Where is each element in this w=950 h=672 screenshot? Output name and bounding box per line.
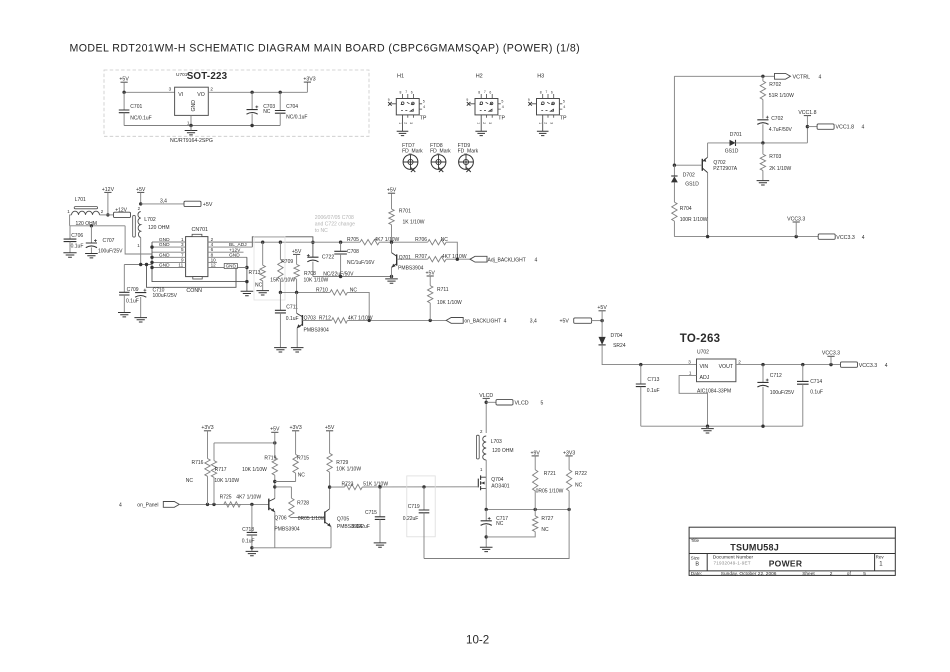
resistor R716 — [207, 431, 209, 459]
svg-text:to NC: to NC — [315, 228, 328, 234]
svg-text:51R 1/10W: 51R 1/10W — [769, 93, 794, 99]
wire SOT-223 bottom rail — [124, 125, 280, 127]
inductor L703 — [477, 435, 480, 459]
resistor R723 — [345, 484, 363, 489]
svg-text:MODEL RDT201WM-H SCHEMATIC DIA: MODEL RDT201WM-H SCHEMATIC DIAGRAM MAIN … — [70, 43, 581, 55]
svg-text:R705: R705 — [347, 237, 359, 243]
svg-text:R725: R725 — [220, 494, 232, 500]
wire on_BACKLIGHT net — [347, 319, 446, 321]
resistor R728 — [289, 498, 294, 518]
connector H2 body — [475, 99, 498, 115]
svg-text:3: 3 — [688, 360, 691, 365]
wire C722/C708 ground rail — [313, 276, 392, 278]
node junction C712 top — [761, 363, 764, 366]
wire Q704 source rail — [486, 508, 569, 510]
R713 highlight box — [254, 236, 285, 300]
svg-text:TP: TP — [498, 115, 505, 121]
wire R717 top to R719 top — [214, 442, 275, 444]
svg-text:VLCD: VLCD — [479, 393, 493, 399]
transistor Q703 PMBS3904 (NPN) — [301, 315, 303, 326]
capacitor C706 — [69, 226, 71, 239]
wire +5V to U701 pin 3 — [124, 91, 175, 93]
power flag +5V (R711) — [427, 275, 434, 277]
wire L701 pin1 down — [70, 215, 72, 226]
node junction R706/R707 — [456, 258, 459, 261]
capacitor C715 — [379, 487, 381, 517]
svg-text:10K 1/10W: 10K 1/10W — [304, 277, 329, 283]
svg-text:D701: D701 — [730, 132, 742, 138]
H3 pin 9 no-connect X — [528, 102, 532, 106]
power flag +3V3 (R716) — [204, 430, 211, 432]
connector H3 body — [537, 99, 560, 115]
H2 bottom pin stubs — [487, 115, 493, 118]
C719 highlight box — [407, 476, 435, 537]
svg-text:0.1uF: 0.1uF — [647, 388, 660, 394]
CN701 pin 10 stub — [208, 261, 217, 263]
wire L701 to +12V port — [100, 214, 114, 216]
resistor R703 — [762, 143, 764, 154]
wire to R723 — [330, 486, 345, 488]
port VCC3.3 (U702) — [841, 362, 858, 367]
svg-text:CONN: CONN — [186, 288, 202, 294]
svg-text:120 OHM: 120 OHM — [148, 225, 169, 231]
svg-text:VCC3.3: VCC3.3 — [787, 216, 805, 222]
H3 ground wire — [542, 115, 544, 131]
wire pin12 loop around — [147, 265, 237, 288]
svg-text:VCC3.3: VCC3.3 — [859, 363, 878, 369]
node junction VLCD port tie — [485, 401, 488, 404]
ground (H3) — [537, 131, 549, 135]
node junction C704 top — [279, 91, 282, 94]
svg-text:R716: R716 — [192, 460, 204, 466]
fiducial FTD9 mark — [459, 155, 474, 172]
svg-text:8: 8 — [478, 90, 480, 94]
wire Q701 base to R707 — [397, 258, 428, 260]
power flag +9V — [532, 455, 539, 457]
svg-text:VO: VO — [197, 92, 205, 98]
svg-text:H2: H2 — [476, 73, 483, 79]
svg-text:R722: R722 — [575, 471, 587, 477]
diode D702 (pointing up) — [673, 165, 675, 176]
svg-text:NC: NC — [186, 478, 194, 484]
wire VCTRL net top — [674, 75, 774, 77]
svg-text:Date:: Date: — [691, 571, 702, 577]
svg-text:H3: H3 — [537, 73, 544, 79]
svg-text:5: 5 — [541, 401, 544, 407]
svg-text:R704: R704 — [680, 206, 692, 212]
svg-text:Sunday, October 22, 2006: Sunday, October 22, 2006 — [721, 571, 777, 577]
wire VCC3.3 flag tie — [830, 356, 832, 364]
svg-text:0R05 1/10W: 0R05 1/10W — [298, 516, 326, 522]
node junction R728 tie — [273, 485, 276, 488]
CN701 pin 3 wire — [152, 246, 186, 248]
SOT-223 dashed region box — [104, 70, 369, 136]
node junction GND bus — [150, 256, 153, 259]
svg-text:Q706: Q706 — [274, 516, 286, 522]
svg-text:1K 1/10W: 1K 1/10W — [403, 220, 425, 226]
svg-text:+12V: +12V — [102, 187, 115, 193]
power flag +3V3 (R722) — [566, 455, 573, 457]
svg-text:3,4: 3,4 — [530, 318, 537, 324]
svg-text:TO-263: TO-263 — [680, 333, 721, 345]
wire Q702 emitter to D701 — [708, 142, 730, 144]
wire VCC3.3 flag to rail — [795, 222, 797, 237]
capacitor C702 — [757, 120, 768, 125]
svg-text:2: 2 — [404, 122, 408, 124]
svg-text:R711: R711 — [437, 287, 449, 293]
svg-text:NC: NC — [496, 521, 504, 527]
svg-text:0.1uF: 0.1uF — [126, 299, 139, 305]
svg-text:and C722 change: and C722 change — [315, 222, 355, 228]
capacitor C718 — [251, 504, 253, 532]
wire L703 to Q704 — [485, 460, 487, 473]
wire VCC3.3 rail — [674, 236, 818, 238]
svg-text:9: 9 — [528, 98, 530, 102]
svg-text:NC: NC — [575, 482, 583, 488]
node junction C718 top — [250, 503, 253, 506]
wire to +5V port — [141, 203, 184, 205]
node junction C717 top — [485, 508, 488, 511]
ground (C710) — [134, 318, 147, 322]
svg-text:+5V: +5V — [270, 427, 280, 433]
svg-text:GND: GND — [159, 252, 170, 258]
CN701 pin 5 wire — [152, 251, 186, 253]
ground (C707) — [85, 254, 98, 258]
svg-text:Adj_BACKLIGHT: Adj_BACKLIGHT — [488, 257, 526, 263]
svg-text:+12V: +12V — [115, 208, 127, 214]
node junction GND bus tie — [245, 280, 248, 283]
svg-text:C722: C722 — [322, 255, 335, 261]
svg-text:3: 3 — [409, 122, 413, 124]
svg-text:D704: D704 — [611, 333, 623, 339]
port VLCD — [496, 400, 513, 405]
wire D701 cathode to VCC1.8 — [735, 142, 807, 144]
capacitor C708 — [340, 242, 342, 251]
node junction GND bus — [150, 245, 153, 248]
wire +5V to D704 anode — [601, 311, 603, 337]
svg-text:3: 3 — [549, 122, 553, 124]
svg-text:R702: R702 — [769, 82, 781, 88]
resistor R721 — [534, 456, 536, 470]
resistor R707 — [428, 257, 446, 262]
svg-text:10K 1/10W: 10K 1/10W — [242, 467, 267, 473]
svg-text:0R05 1/10W: 0R05 1/10W — [536, 489, 564, 495]
net flag VCTRL — [775, 73, 791, 79]
svg-text:0.1uF: 0.1uF — [242, 538, 255, 544]
svg-text:L702: L702 — [144, 217, 156, 223]
svg-text:1: 1 — [689, 371, 692, 376]
svg-text:100R 1/10W: 100R 1/10W — [680, 217, 708, 223]
svg-text:C707: C707 — [103, 238, 115, 244]
svg-text:R701: R701 — [399, 209, 411, 215]
svg-text:6: 6 — [489, 90, 491, 94]
svg-text:4: 4 — [504, 319, 507, 325]
node junction R710 drop — [368, 319, 371, 322]
svg-text:100uF/25V: 100uF/25V — [770, 390, 795, 396]
wire +5V flag to node — [123, 82, 125, 92]
svg-text:Q704: Q704 — [491, 477, 503, 483]
capacitor C710 — [135, 293, 146, 298]
node junction R702 top — [761, 75, 764, 78]
power flag +5V (R701) — [388, 192, 395, 194]
svg-text:AO3401: AO3401 — [491, 483, 510, 489]
svg-text:C713: C713 — [647, 377, 659, 383]
connector H1 body — [396, 99, 419, 115]
CN701 pin 6 wire — [208, 251, 244, 253]
resistor R713 — [262, 242, 264, 265]
wire U702 ADJ to ground — [679, 376, 707, 427]
svg-text:R703: R703 — [769, 154, 781, 160]
node junction R711 bottom — [429, 319, 432, 322]
svg-text:VCTRL: VCTRL — [793, 74, 811, 80]
svg-text:+5V: +5V — [560, 319, 570, 325]
svg-text:0.1uF: 0.1uF — [286, 316, 299, 322]
op IC U701 body — [175, 87, 209, 115]
wire to VLCD port — [486, 401, 496, 403]
svg-text:0.1uF: 0.1uF — [71, 244, 84, 250]
svg-text:0.1uF: 0.1uF — [810, 390, 823, 396]
resistor R711 — [429, 276, 431, 286]
svg-text:POWER: POWER — [769, 558, 803, 568]
svg-text:100uF/25V: 100uF/25V — [98, 249, 123, 255]
svg-text:4: 4 — [502, 105, 504, 109]
svg-text:VIN: VIN — [700, 364, 709, 370]
svg-text:Q702: Q702 — [713, 160, 725, 166]
node junction C711 top — [279, 291, 282, 294]
svg-text:+5V: +5V — [325, 425, 335, 431]
svg-text:15K 1/10W: 15K 1/10W — [270, 277, 295, 283]
capacitor C707 — [90, 226, 92, 243]
ground (H1) — [397, 131, 409, 135]
wire U702 bottom rail — [641, 425, 803, 427]
svg-text:R719: R719 — [264, 455, 276, 461]
svg-text:71932049-1-9ET: 71932049-1-9ET — [714, 560, 751, 565]
wire R707 to Adj_BACKLIGHT — [446, 258, 470, 260]
svg-text:9: 9 — [466, 98, 468, 102]
resistor R729 — [329, 431, 331, 454]
wire VCC1.8 flag to node — [806, 116, 808, 143]
svg-text:R706: R706 — [415, 237, 427, 243]
wire +5V flag down — [140, 192, 142, 204]
resistor R708 — [296, 254, 298, 264]
node junction C701 top — [122, 91, 125, 94]
node junction C708 top — [339, 241, 342, 244]
svg-text:10K 1/10W: 10K 1/10W — [437, 300, 462, 306]
wire Q703 base to R712 — [302, 319, 331, 321]
pin12 GND boxed label — [224, 264, 237, 269]
net flag Adj_BACKLIGHT — [470, 256, 487, 262]
svg-text:4: 4 — [885, 363, 888, 369]
svg-text:+5V: +5V — [597, 305, 607, 311]
svg-text:+3V3: +3V3 — [201, 425, 213, 431]
svg-text:4: 4 — [119, 502, 122, 508]
ground (C717) — [480, 547, 493, 551]
svg-text:1: 1 — [477, 122, 481, 124]
svg-text:R717: R717 — [215, 467, 227, 473]
svg-text:FD_Mark: FD_Mark — [458, 149, 479, 155]
power flag VCC1.8 — [804, 115, 811, 117]
node junction +5V port wire — [139, 202, 142, 205]
svg-text:NC/RT9164-2SPG: NC/RT9164-2SPG — [170, 138, 213, 144]
svg-text:4: 4 — [819, 74, 822, 80]
node junction R701 bottom — [390, 241, 393, 244]
capacitor C703 — [251, 92, 253, 109]
svg-text:7: 7 — [484, 90, 486, 94]
svg-text:4K7 1/10W: 4K7 1/10W — [236, 494, 261, 500]
power flag VCC3.3 (top right) — [793, 221, 800, 223]
resistor R701 — [391, 193, 393, 209]
svg-text:2: 2 — [210, 87, 213, 92]
wire +5V port to D704 — [592, 320, 603, 322]
svg-text:NC/1uF/16V: NC/1uF/16V — [347, 260, 375, 266]
svg-text:C718: C718 — [242, 527, 254, 533]
svg-text:SOT-223: SOT-223 — [187, 71, 228, 82]
svg-text:GND: GND — [229, 252, 240, 258]
H1 ground wire — [402, 115, 404, 131]
svg-text:B: B — [695, 562, 699, 568]
capacitor C701 — [123, 92, 125, 110]
capacitor C714 — [802, 365, 804, 382]
wire R706 drop to R707 net — [446, 242, 457, 259]
node junction U701 gnd — [189, 124, 192, 127]
svg-text:Q705: Q705 — [337, 516, 349, 522]
svg-text:ADJ: ADJ — [700, 375, 710, 381]
ground (C711) — [274, 348, 287, 352]
svg-text:4: 4 — [423, 105, 425, 109]
power flag VLCD — [483, 397, 490, 399]
node junction R721/R727 — [534, 508, 537, 511]
wire R722 net to C719 bottom — [424, 509, 569, 558]
resistor R709 — [279, 242, 281, 259]
svg-text:+5V: +5V — [136, 187, 146, 193]
svg-text:4: 4 — [862, 235, 865, 241]
CN701 pin 8 wire — [208, 256, 247, 258]
CN701 pin 2 wire — [208, 241, 252, 243]
port VCC3.3 (top right) — [818, 234, 835, 239]
wire D704 to U702 VIN — [602, 345, 696, 365]
H2 top pins — [481, 94, 492, 99]
wire C702 to VCC1.8 node — [762, 124, 764, 143]
svg-text:NC: NC — [255, 282, 263, 288]
svg-text:+3V3: +3V3 — [563, 450, 575, 456]
svg-text:6: 6 — [551, 90, 553, 94]
svg-text:9: 9 — [388, 98, 390, 102]
svg-text:FD_Mark: FD_Mark — [402, 149, 423, 155]
svg-text:GS1D: GS1D — [725, 148, 739, 154]
svg-text:GND: GND — [159, 242, 170, 248]
svg-text:Sheet: Sheet — [802, 571, 815, 577]
svg-text:+9V: +9V — [531, 450, 541, 456]
wire L702 to C710 — [140, 238, 142, 265]
svg-text:L701: L701 — [75, 197, 86, 203]
svg-text:3: 3 — [169, 87, 172, 92]
svg-text:+5V: +5V — [426, 270, 436, 276]
capacitor C719 — [423, 487, 425, 510]
ground (R703) — [757, 181, 770, 185]
svg-text:VOUT: VOUT — [719, 364, 734, 370]
svg-text:4: 4 — [535, 257, 538, 263]
capacitor C709 — [123, 265, 125, 293]
node junction C714 top — [801, 363, 804, 366]
port +5V (top) — [184, 201, 201, 206]
node junction VCC3.3 flag — [795, 235, 798, 238]
svg-text:7: 7 — [405, 90, 407, 94]
port VCC1.8 — [817, 124, 834, 129]
H3 left pin stub — [532, 103, 537, 105]
ground (C706) — [63, 253, 76, 257]
title block frame — [689, 527, 895, 575]
svg-text:on_Panel: on_Panel — [137, 503, 158, 509]
svg-text:NC: NC — [263, 109, 271, 115]
svg-text:6: 6 — [411, 90, 413, 94]
svg-text:VI: VI — [178, 92, 183, 98]
wire VOUT to VCC3.3 port — [736, 364, 841, 366]
transistor Q704 AO3401 (P-MOSFET) — [477, 479, 479, 488]
node junction C708 bottom — [339, 275, 342, 278]
transistor Q701 PMBS3904 (NPN) — [396, 254, 398, 265]
resistor R719 — [274, 432, 276, 457]
resistor R710 — [330, 290, 347, 295]
wire R704 to VCC3.3 rail — [673, 221, 675, 237]
CN701 pin 9 wire — [152, 261, 186, 263]
ground (R713) — [256, 291, 269, 295]
svg-text:2: 2 — [544, 122, 548, 124]
H2 pin 9 no-connect X — [467, 102, 471, 106]
wire U701 pin 2 to +3V3 node — [208, 91, 307, 93]
ground (Q701) — [385, 279, 398, 283]
node junction U702 ground — [706, 425, 709, 428]
svg-text:2: 2 — [830, 571, 833, 577]
H1 pin 9 no-connect X — [388, 102, 392, 106]
capacitor C712 — [762, 365, 764, 383]
resistor R727 — [534, 509, 536, 516]
node junction Q701 emitter — [390, 275, 393, 278]
capacitor C717 — [485, 509, 487, 520]
node junction GND bus — [150, 266, 153, 269]
svg-text:11: 11 — [178, 263, 183, 268]
wire C709/C710 node — [124, 264, 152, 266]
svg-text:R710: R710 — [316, 287, 328, 293]
resistor R712 — [332, 318, 348, 323]
svg-text:1: 1 — [538, 122, 542, 124]
svg-text:PZT2907A: PZT2907A — [713, 166, 738, 172]
svg-text:PMBS3904: PMBS3904 — [304, 327, 330, 333]
svg-text:3,4: 3,4 — [160, 198, 167, 204]
power flag +5V (R729) — [326, 430, 333, 432]
svg-text:H1: H1 — [397, 73, 404, 79]
port +5V (D704) — [574, 318, 592, 323]
node junction R729/Q705/R723 — [328, 485, 331, 488]
wire R710 to on_BACKLIGHT net — [347, 292, 369, 320]
svg-text:R707: R707 — [415, 254, 427, 260]
ground (Q703) — [291, 348, 304, 352]
svg-text:2: 2 — [738, 360, 741, 365]
svg-text:VCC3.3: VCC3.3 — [822, 351, 840, 357]
ground (C709) — [118, 313, 131, 317]
wire R709/R708 bottom node — [280, 291, 330, 293]
node junction C707 top — [90, 224, 93, 227]
node junction C703 top — [250, 91, 253, 94]
svg-text:100uF/25V: 100uF/25V — [153, 293, 178, 299]
svg-text:U702: U702 — [697, 350, 709, 356]
CN701 pin 11 wire — [152, 267, 186, 269]
svg-text:R713: R713 — [249, 270, 261, 276]
svg-text:TP: TP — [420, 115, 427, 121]
H2 left pin stub — [470, 103, 475, 105]
wire C706/C707 rail — [70, 225, 126, 227]
port +12V — [114, 212, 131, 217]
ground (CN701 pin8) — [241, 291, 254, 295]
